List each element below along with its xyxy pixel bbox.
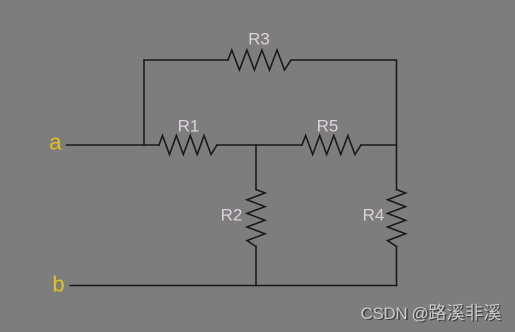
svg-text:b: b bbox=[52, 272, 64, 297]
watermark CSDN bbox=[361, 304, 503, 325]
wire bbox=[291, 60, 397, 145]
resistor R1 bbox=[159, 136, 217, 155]
resistor R3 bbox=[228, 50, 291, 70]
wire from node a bbox=[67, 144, 160, 146]
wire bbox=[70, 285, 397, 287]
wire bbox=[361, 144, 397, 146]
svg-text:R2: R2 bbox=[221, 206, 243, 225]
wire bbox=[255, 145, 257, 190]
wire bbox=[144, 60, 228, 145]
resistor R2 bbox=[247, 190, 265, 247]
wire bbox=[217, 144, 302, 146]
svg-text:R1: R1 bbox=[178, 117, 200, 136]
svg-text:a: a bbox=[49, 130, 62, 155]
svg-text:R4: R4 bbox=[363, 206, 385, 225]
wire bbox=[396, 247, 398, 286]
resistor R4 bbox=[388, 190, 406, 247]
wire bbox=[255, 247, 257, 286]
wire bbox=[396, 145, 398, 190]
svg-text:R5: R5 bbox=[317, 117, 339, 136]
svg-text:CSDN @: CSDN @ bbox=[361, 304, 429, 323]
svg-text:R3: R3 bbox=[248, 30, 270, 49]
resistor R5 bbox=[302, 136, 361, 155]
